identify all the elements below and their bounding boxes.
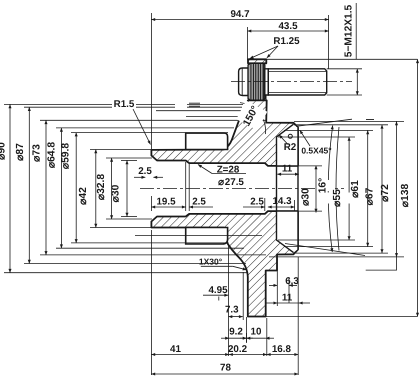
svg-text:2.5: 2.5 (250, 197, 264, 208)
middle small dimensions (134, 162, 299, 211)
svg-text:⌀42: ⌀42 (78, 187, 89, 205)
svg-text:2.5: 2.5 (138, 166, 152, 177)
dimension 11 top (flange thickness) (277, 173, 299, 175)
svg-text:41: 41 (170, 344, 181, 355)
thread root lines (269, 71, 326, 92)
svg-text:14.3: 14.3 (272, 196, 292, 207)
dimension 2.5 right (243, 206, 265, 208)
svg-text:6.3: 6.3 (285, 276, 299, 287)
angle 150 arc (240, 103, 266, 135)
ext lines bottom (150, 230, 152, 375)
ext line left face vertical (150, 13, 152, 149)
ext line thread end vertical (328, 15, 330, 69)
R2 fillet circle symbol (288, 134, 292, 138)
left diameter dimension lines (4, 104, 266, 272)
text masks (112, 98, 355, 204)
svg-text:⌀138: ⌀138 (400, 184, 411, 208)
cone generator line top (296, 119, 352, 126)
svg-text:16°: 16° (318, 178, 329, 194)
ext line 43.5 left (247, 27, 249, 60)
svg-text:R1.25: R1.25 (273, 36, 300, 47)
svg-text:⌀30: ⌀30 (301, 188, 312, 206)
hub body lower half section (151, 211, 298, 316)
dim dia72 (396, 121, 398, 257)
angle arc 16deg outer (336, 127, 339, 251)
dimension 2.5 left bore chamfer (134, 176, 145, 178)
svg-text:11: 11 (282, 164, 293, 175)
dimension 43.5 (248, 30, 329, 32)
leader 1X30 (201, 265, 233, 267)
flange face at stud hole (265, 95, 267, 101)
bearing collar lower (186, 228, 228, 245)
bottom dimensions (151, 230, 310, 375)
stud head chamfer line (241, 68, 243, 96)
dim dia67 (381, 125, 383, 253)
dim dia42 (95, 150, 97, 228)
leader 4.95 (203, 294, 228, 296)
stud head (239, 68, 249, 96)
dimension 9.2 / 10 (221, 337, 229, 339)
leader Z=28 (212, 173, 246, 175)
dim dia64.8 (60, 128, 62, 248)
svg-text:0.5X45°: 0.5X45° (301, 146, 332, 156)
svg-text:43.5: 43.5 (278, 21, 298, 32)
dimension 14.3 (268, 206, 295, 208)
texts rotated left column (0, 142, 122, 205)
wheel stud (239, 63, 327, 100)
cone generator line bottom (285, 244, 365, 256)
dim dia61 (367, 130, 369, 246)
break marks (189, 103, 200, 106)
svg-text:⌀ 27.5: ⌀ 27.5 (218, 177, 244, 188)
svg-text:9.2: 9.2 (229, 326, 243, 337)
svg-text:⌀64.8: ⌀64.8 (47, 142, 58, 169)
callout 5-M12X1.5 line (355, 3, 357, 59)
svg-text:16.8: 16.8 (272, 344, 292, 355)
serration teeth (250, 63, 263, 100)
hook line bottom right (366, 257, 397, 270)
dim dia55 (348, 137, 350, 240)
stud threaded shank (268, 69, 326, 95)
dimension 94.7 (151, 19, 328, 21)
dim dia30 left (126, 160, 128, 216)
svg-text:2.5: 2.5 (192, 197, 206, 208)
dim dia90 (9, 104, 11, 272)
dim dia30 right (315, 166, 317, 213)
texts horizontal (114, 9, 333, 373)
bearing collar upper (unhatched ring) (186, 133, 228, 149)
svg-text:R2: R2 (284, 142, 297, 153)
dimension 19.5 (151, 206, 185, 208)
dimension 2.5 mid (189, 206, 213, 208)
ext line serration ref (156, 111, 264, 117)
dimension 7.3 (229, 316, 243, 318)
svg-text:1X30°: 1X30° (199, 257, 223, 267)
stud boss above bolt (248, 59, 266, 63)
dimension 6.3 (276, 258, 278, 306)
svg-text:11: 11 (282, 293, 293, 304)
dim dia73 (45, 120, 47, 255)
svg-text:⌀87: ⌀87 (15, 143, 26, 161)
svg-text:⌀90: ⌀90 (0, 142, 8, 160)
svg-text:4.95: 4.95 (208, 285, 228, 296)
svg-text:⌀55: ⌀55 (332, 189, 343, 207)
ext thread od (327, 68, 362, 70)
wheel pilot recess (right face pocket) upper (277, 124, 299, 252)
dimension 11 bottom (265, 302, 277, 304)
leader R2 (279, 135, 288, 145)
svg-text:20.2: 20.2 (228, 344, 248, 355)
svg-text:⌀73: ⌀73 (32, 144, 43, 162)
dim dia59.8 (75, 133, 77, 243)
leader R1.25 (250, 46, 278, 59)
centerline main axis (140, 82, 352, 189)
right diameter dimension lines (266, 59, 418, 316)
centerline stud axis (231, 81, 352, 83)
thin dimension work (151, 3, 417, 149)
svg-text:⌀61: ⌀61 (350, 180, 361, 198)
svg-text:⌀72: ⌀72 (380, 184, 391, 202)
dimension 41 / 20.2 / 16.8 (151, 354, 229, 356)
ext lines 19.5 / 2.5 (150, 196, 152, 211)
svg-text:7.3: 7.3 (225, 304, 239, 315)
svg-text:78: 78 (220, 363, 231, 374)
dim dia87 (28, 107, 30, 263)
svg-text:10: 10 (251, 326, 262, 337)
leader R1.5 (133, 103, 374, 146)
dimension 78 (151, 373, 298, 375)
pocket edges upper (277, 124, 299, 252)
svg-text:⌀67: ⌀67 (365, 187, 376, 205)
dim dia32.8 (111, 158, 113, 219)
stud serration section (248, 63, 265, 100)
svg-text:Z=28: Z=28 (217, 165, 240, 176)
svg-text:19.5: 19.5 (156, 197, 176, 208)
svg-text:⌀32.8: ⌀32.8 (96, 174, 107, 201)
svg-text:5−M12X1.5: 5−M12X1.5 (344, 4, 355, 57)
svg-text:⌀30: ⌀30 (111, 184, 122, 202)
svg-text:R1.5: R1.5 (114, 99, 135, 110)
svg-text:94.7: 94.7 (230, 9, 250, 20)
stud neck groove (265, 69, 269, 95)
svg-text:⌀59.8: ⌀59.8 (61, 143, 72, 170)
texts rotated right column (241, 4, 411, 207)
leader 0.5X45 (300, 130, 310, 146)
angle arc 16deg inner (328, 126, 333, 253)
hub body upper half section (151, 59, 298, 316)
dim dia138 arrows on far right line (417, 59, 419, 316)
